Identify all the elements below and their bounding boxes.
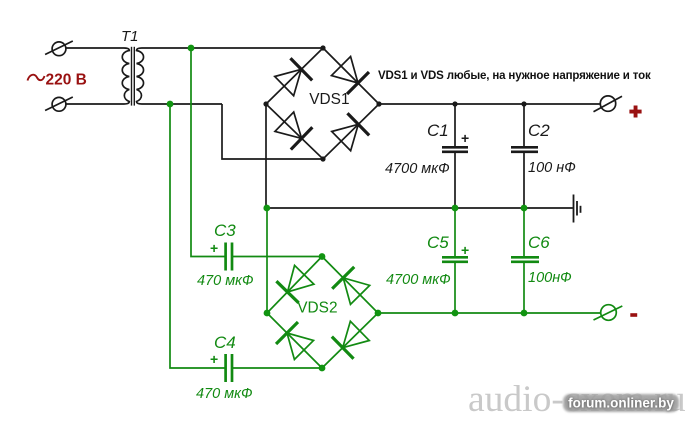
- node VDS2 bottom AC: [319, 365, 326, 372]
- capacitor C5 (electrolytic 4700 мкФ, ground to minus rail): [442, 208, 468, 313]
- svg-text:470 мкФ: 470 мкФ: [196, 386, 253, 402]
- terminal - output: [594, 305, 623, 321]
- bridge rectifier VDS1 diamond: [266, 48, 379, 159]
- svg-text:100 нФ: 100 нФ: [528, 160, 576, 176]
- ground: [574, 195, 581, 223]
- green wire transformer top to C3: [191, 48, 225, 257]
- junction VDS2 plus branch / ground rail: [263, 205, 270, 212]
- svg-text:100нФ: 100нФ: [528, 270, 572, 286]
- junction C4 feed / bottom secondary wire: [167, 101, 174, 108]
- terminal + output: [594, 96, 623, 112]
- node VDS1 minus: [263, 101, 268, 106]
- svg-text:C4: C4: [214, 333, 236, 352]
- junction C1 / plus rail: [452, 101, 457, 106]
- node VDS2 plus: [264, 310, 271, 317]
- capacitor C1 (electrolytic 4700 мкФ, plus rail to ground): [442, 104, 468, 208]
- junction C5 / minus rail: [452, 310, 459, 317]
- svg-text:forum.onliner.by: forum.onliner.by: [568, 396, 674, 411]
- node VDS1 plus: [376, 101, 381, 106]
- terminal X2 (mains input, bottom): [45, 97, 73, 111]
- transformer T1 primary winding (with input wires): [66, 48, 129, 104]
- svg-text:C6: C6: [528, 233, 550, 252]
- wire secondary bottom to VDS1 bottom AC node (L-path): [222, 104, 323, 159]
- node VDS1 bottom AC: [320, 156, 325, 161]
- wire plus rail (VDS1 right vertex to + terminal): [379, 103, 600, 105]
- svg-text:C5: C5: [427, 233, 449, 252]
- node VDS1 top AC: [320, 45, 325, 50]
- capacitor C6 (100нФ, ground to minus rail): [511, 208, 539, 313]
- diode VDS2.1 (top to left): [276, 264, 315, 303]
- junction C2 / plus rail: [521, 101, 526, 106]
- node VDS2 top AC: [319, 253, 326, 260]
- svg-text:+: +: [461, 130, 469, 146]
- svg-text:+: +: [210, 240, 218, 256]
- svg-text:470 мкФ: 470 мкФ: [197, 273, 254, 289]
- svg-text:VDS2: VDS2: [297, 300, 337, 317]
- label - (red minus output): [630, 313, 637, 317]
- svg-text:C1: C1: [427, 121, 449, 140]
- label ~220 В (mains voltage): [28, 72, 87, 89]
- bridge rectifier VDS2 diamond: [267, 257, 378, 369]
- diode VDS1.2 (top to right): [330, 55, 369, 94]
- svg-text:VDS1: VDS1: [309, 91, 349, 108]
- junction C6 / minus rail: [521, 310, 528, 317]
- green wire ground rail to VDS2 plus (left vertex): [266, 208, 268, 313]
- wire VDS1 minus (left vertex) down to ground rail: [265, 104, 267, 208]
- svg-text:+: +: [210, 351, 218, 367]
- svg-text:4700 мкФ: 4700 мкФ: [385, 161, 450, 177]
- diode VDS2.4 (right to bottom): [332, 320, 371, 359]
- green wire transformer bottom to C4: [170, 104, 225, 368]
- svg-text:T1: T1: [121, 28, 139, 45]
- junction C5 / ground rail: [452, 205, 459, 212]
- diode VDS1.4 (bottom to right): [330, 113, 369, 152]
- diode VDS2.2 (right to top): [332, 267, 371, 306]
- svg-text:4700 мкФ: 4700 мкФ: [386, 272, 451, 288]
- terminal X1 (mains input, top): [45, 41, 73, 56]
- transformer T1 secondary winding (wire to VDS1 top AC node and to bottom AC wire): [137, 48, 324, 104]
- svg-text:220 В: 220 В: [46, 72, 87, 89]
- svg-text:C2: C2: [528, 121, 550, 140]
- watermark forum.onliner.by: [563, 394, 679, 412]
- svg-text:VDS1 и VDS любые, на нужное на: VDS1 и VDS любые, на нужное напряжение и…: [378, 70, 651, 82]
- diode VDS1.1 (left to top): [273, 58, 312, 97]
- diode VDS1.3 (left to bottom): [274, 111, 313, 150]
- node VDS2 minus: [375, 310, 382, 317]
- svg-text:C3: C3: [214, 221, 236, 240]
- svg-text:+: +: [461, 242, 469, 258]
- diode VDS2.3 (bottom to left): [276, 322, 315, 361]
- capacitor C2 (100 нФ, plus rail to ground): [511, 104, 538, 208]
- capacitor C3 (electrolytic 470 мкФ, AC coupling to VDS2 top): [226, 243, 322, 271]
- label + (red plus output): [629, 106, 641, 118]
- junction C3 feed / top rail: [188, 45, 195, 52]
- wire ground rail: [266, 207, 573, 209]
- transformer T1 core: [132, 47, 135, 106]
- wire minus rail (VDS2 right vertex to - terminal): [378, 312, 601, 314]
- capacitor C4 (electrolytic 470 мкФ, AC coupling to VDS2 bottom): [226, 354, 322, 382]
- junction C6 / ground rail: [521, 205, 528, 212]
